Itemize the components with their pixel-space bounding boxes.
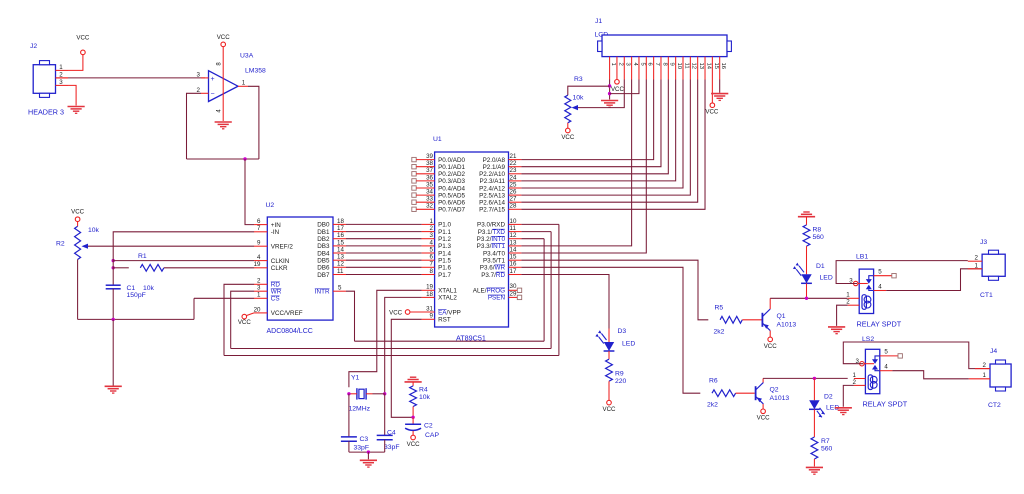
R2 bottom wire: [77, 260, 79, 320]
svg-text:4: 4: [257, 254, 261, 261]
U2 pin 12 DB6: [317, 261, 346, 272]
svg-text:25: 25: [510, 181, 517, 188]
U1 pin 28 P2.7/A15: [479, 203, 521, 214]
svg-text:5: 5: [878, 269, 882, 276]
svg-text:+IN: +IN: [271, 222, 281, 229]
svg-text:DB4: DB4: [317, 250, 330, 257]
wire J1.9 to P2.2: [521, 80, 668, 174]
svg-text:R4: R4: [419, 387, 428, 394]
svg-text:VCC: VCC: [611, 86, 625, 93]
svg-text:33pF: 33pF: [354, 445, 370, 452]
label LS2: [862, 336, 874, 343]
svg-text:33: 33: [426, 196, 433, 203]
svg-text:U1: U1: [433, 136, 442, 143]
svg-text:24: 24: [510, 174, 517, 181]
connector J1 LCD body: [598, 35, 732, 57]
relay LB1 pin 1: [846, 292, 859, 299]
J1 pin 2 stub: [617, 57, 623, 80]
U2 pin 20 VCC/VREF: [254, 306, 303, 317]
wire D2 to R7: [813, 409, 815, 437]
svg-text:VCC: VCC: [238, 319, 252, 326]
relay LS2 pin 3 circle: [860, 362, 864, 366]
potentiometer R3: [565, 95, 571, 123]
svg-text:C2: C2: [424, 423, 433, 430]
junction ground rail: [112, 318, 115, 321]
label D2 LED: [826, 405, 839, 412]
J1 pin 14 stub: [705, 57, 711, 80]
svg-text:13: 13: [337, 254, 344, 261]
U2 pin 14 DB4: [317, 246, 346, 257]
wire Q2 collector: [762, 378, 764, 382]
svg-text:17: 17: [337, 225, 344, 232]
svg-text:INTR: INTR: [315, 289, 330, 296]
svg-text:7: 7: [654, 63, 660, 66]
wire ground column: [112, 319, 114, 385]
relay LB1 pin 2: [846, 299, 859, 306]
J1 pin 7 stub: [654, 57, 660, 80]
junction crystal right: [373, 392, 387, 395]
wire Q1 node to relay: [770, 297, 847, 299]
svg-text:2: 2: [846, 299, 850, 306]
wire J1.13 to P2.6: [521, 80, 697, 203]
junction R4 C2 RST: [411, 416, 414, 419]
wire J2.2 to op-amp +: [56, 77, 206, 79]
label R3 10k: [573, 95, 585, 102]
svg-text:P0.7/AD7: P0.7/AD7: [438, 207, 465, 214]
U2 pin 1 CS: [254, 292, 280, 303]
label R2: [56, 241, 65, 248]
transistor Q1: [762, 309, 770, 331]
svg-text:13: 13: [698, 63, 704, 70]
wire DB2 to P1.2: [346, 238, 422, 240]
ground at J1 pin16: [711, 94, 728, 101]
wire J1.1 to ground: [609, 80, 611, 100]
wire C4 bottom: [384, 440, 386, 452]
label C1: [127, 285, 155, 292]
label C3 33pF: [354, 445, 370, 452]
svg-text:EA/VPP: EA/VPP: [438, 309, 461, 316]
svg-text:16: 16: [720, 63, 726, 70]
U1 pin 26 P2.5/A13: [479, 189, 521, 200]
U1 pin 11 P3.1: [478, 225, 522, 236]
U1 pin 13 P3.3: [477, 239, 522, 250]
svg-text:ADC0804/LCC: ADC0804/LCC: [267, 328, 313, 335]
svg-text:8: 8: [430, 268, 434, 275]
U1 pin 22 P2.1/A9: [483, 160, 522, 171]
J2 pin 3 stub: [56, 79, 69, 86]
svg-text:5: 5: [338, 285, 342, 292]
svg-text:560: 560: [813, 234, 825, 241]
wire R4 bottom: [412, 407, 414, 418]
U2 pin 5 INTR: [315, 285, 346, 296]
label 12MHz: [349, 406, 371, 413]
svg-text:13: 13: [510, 239, 517, 246]
svg-text:VCC: VCC: [764, 343, 778, 350]
power VCC at J1 pin15: [705, 103, 719, 116]
U2 pin 18 DB0: [317, 218, 346, 229]
relay LS2 pin 3 label: [855, 358, 859, 365]
svg-text:9: 9: [669, 63, 675, 66]
U1 pin 3 P1.2: [422, 232, 452, 243]
R3 wiper: [572, 105, 579, 110]
wire D1 to node: [806, 283, 808, 298]
svg-text:R2: R2: [56, 241, 65, 248]
ground at U3A: [215, 122, 232, 129]
power VCC below R3: [561, 128, 575, 141]
U1 pin 10 P3.0: [477, 218, 521, 229]
svg-text:D1: D1: [816, 263, 825, 270]
svg-text:35: 35: [426, 181, 433, 188]
svg-text:4: 4: [878, 283, 882, 290]
ground at J1 pin1: [601, 101, 618, 108]
U1 pin 21 P2.0/A8: [483, 153, 522, 164]
svg-text:P1.5: P1.5: [438, 258, 451, 265]
wire R8 to D1: [806, 246, 808, 274]
svg-text:VREF/2: VREF/2: [271, 244, 294, 251]
junction R1 left: [112, 266, 115, 269]
junction J1.1 R3: [608, 84, 611, 87]
J1 pin 1 stub: [610, 57, 616, 80]
svg-text:2: 2: [617, 63, 623, 66]
wire R2 wiper to U2 VREF/2: [88, 245, 254, 247]
wire -IN: [113, 232, 254, 261]
label U2: [266, 202, 275, 209]
svg-text:9: 9: [430, 313, 434, 320]
svg-text:5: 5: [884, 349, 888, 356]
power VCC below Q2: [757, 409, 771, 422]
J2 pin 1 stub: [56, 64, 69, 71]
wire D2 top lead: [813, 378, 815, 400]
capacitor C3: [341, 437, 357, 441]
svg-text:LB1: LB1: [856, 254, 868, 261]
svg-text:P2.3/A11: P2.3/A11: [480, 178, 506, 185]
label D1: [816, 263, 825, 270]
svg-text:33pF: 33pF: [384, 444, 400, 451]
power VCC at EA: [389, 309, 410, 316]
svg-text:10k: 10k: [88, 227, 100, 234]
label Q1 A1013: [777, 322, 797, 329]
svg-text:26: 26: [510, 189, 517, 196]
U2 pin 19 CLKR: [254, 261, 288, 272]
U1 pin 7 P1.6: [422, 261, 452, 272]
wire INT0 up: [521, 239, 544, 342]
ground above R8: [798, 212, 815, 217]
svg-text:4: 4: [430, 239, 434, 246]
svg-text:2k2: 2k2: [707, 402, 718, 409]
wire INTR to INT0 rail: [346, 291, 355, 341]
svg-text:1: 1: [59, 64, 63, 71]
svg-text:9: 9: [257, 240, 261, 247]
svg-text:18: 18: [426, 291, 433, 298]
wire J1.11 to P2.4: [521, 80, 683, 189]
svg-text:3: 3: [197, 72, 201, 79]
label Q2 A1013: [770, 395, 790, 402]
svg-text:27: 27: [510, 196, 517, 203]
ground at J2: [68, 107, 85, 114]
label R9: [615, 371, 624, 378]
label R1: [138, 253, 147, 260]
svg-text:17: 17: [510, 268, 517, 275]
label J2: [30, 43, 37, 50]
wire Q2 node to relay: [763, 377, 848, 379]
svg-text:WR: WR: [271, 289, 282, 296]
wire RD rail: [224, 355, 559, 357]
svg-text:XTAL2: XTAL2: [438, 295, 457, 302]
U1 pin 24 P2.3/A11: [480, 174, 522, 185]
wire J1.8 to P2.1: [521, 80, 661, 167]
relay LB1 switch: [856, 276, 874, 291]
wire R4 top: [412, 382, 414, 386]
svg-text:RELAY SPDT: RELAY SPDT: [857, 320, 902, 329]
wire caps to ground: [367, 452, 369, 459]
U1 pin 8 P1.7: [422, 268, 452, 279]
svg-text:220: 220: [615, 378, 627, 385]
wire RXD up: [521, 224, 559, 355]
resistor R7: [811, 437, 818, 459]
resistor R9: [606, 359, 613, 381]
label C2: [424, 423, 433, 430]
svg-text:CT2: CT2: [988, 402, 1001, 409]
label C1 150pF: [127, 292, 146, 299]
wire J1.7 to P2.0: [521, 80, 653, 160]
label C4: [387, 429, 396, 436]
label R7: [821, 438, 830, 445]
wire J1.5 to ground join: [610, 80, 639, 94]
wire C1 to ground rail: [112, 289, 114, 320]
label D3: [618, 328, 627, 335]
relay LB1 body: [859, 269, 873, 313]
LED D1: [793, 263, 812, 284]
wire C3 bottom: [348, 441, 350, 452]
svg-text:10k: 10k: [143, 285, 155, 292]
svg-text:CLKR: CLKR: [271, 265, 288, 272]
svg-text:31: 31: [426, 305, 433, 312]
J1 pin 9 stub: [668, 57, 674, 80]
svg-text:P3.4/T0: P3.4/T0: [483, 250, 506, 257]
svg-text:P1.0: P1.0: [438, 222, 451, 229]
svg-text:Y1: Y1: [351, 375, 360, 382]
wire C2 to VCC: [412, 431, 414, 435]
svg-text:1: 1: [983, 372, 987, 379]
relay LB1 pin 3 circle: [854, 281, 858, 285]
wire P3.5 to R5: [521, 260, 708, 320]
wire RST: [391, 319, 421, 417]
svg-text:15: 15: [337, 239, 344, 246]
power VCC at R2: [71, 209, 85, 222]
svg-text:11: 11: [683, 63, 689, 69]
svg-text:DB0: DB0: [317, 222, 330, 229]
label C4 33pF: [384, 444, 400, 451]
svg-text:HEADER 3: HEADER 3: [28, 108, 64, 117]
U1 pin 19 XTAL1: [422, 284, 458, 295]
U1 pin 18 XTAL2: [422, 291, 458, 302]
wire D3 top lead: [608, 329, 610, 343]
U1 pin 30 ALE/PROG: [473, 283, 522, 295]
junction D2 node: [813, 377, 816, 380]
U3A pin 2 stub: [197, 87, 209, 94]
label RELAY SPDT 2: [863, 400, 908, 409]
wire J2.1 to VCC: [68, 55, 83, 71]
wire R1 right lead: [164, 267, 254, 269]
LED D3: [595, 330, 614, 351]
R2 top wire: [77, 222, 79, 227]
svg-text:P2.5/A13: P2.5/A13: [479, 192, 505, 199]
svg-text:A1013: A1013: [777, 322, 797, 329]
U1 pin 23 P2.2/A10: [479, 167, 521, 178]
svg-text:7: 7: [257, 225, 261, 232]
relay LS2 body: [865, 349, 879, 393]
U2 pin 9 VREF/2: [254, 240, 293, 251]
svg-text:P3.5/T1: P3.5/T1: [483, 258, 506, 265]
R3 bottom lead: [567, 123, 569, 128]
svg-text:16: 16: [337, 232, 344, 239]
IC U2 ADC0804 body: [267, 217, 333, 320]
wire J1.3 to R3 wiper: [578, 80, 624, 108]
svg-text:1: 1: [975, 262, 979, 269]
wire DB3 to P1.3: [346, 245, 422, 247]
wire TXD up: [521, 232, 551, 349]
U1 pin 33 P0.6/AD6: [412, 196, 466, 207]
svg-text:P2.6/A14: P2.6/A14: [479, 200, 505, 207]
svg-text:P2.0/A8: P2.0/A8: [483, 157, 506, 164]
svg-text:−: −: [210, 91, 214, 98]
op-amp U3A: [209, 71, 239, 102]
svg-text:19: 19: [254, 261, 261, 268]
svg-text:23: 23: [510, 167, 517, 174]
ground at caps: [360, 460, 377, 467]
wire DB4 to P1.4: [346, 252, 422, 254]
wire XTAL2: [385, 297, 422, 393]
svg-text:P0.3/AD3: P0.3/AD3: [438, 178, 465, 185]
svg-text:PSEN: PSEN: [488, 295, 506, 302]
U1 pin 31 EA/VPP: [410, 305, 461, 316]
U1 pin 32 P0.7/AD7: [412, 203, 466, 214]
svg-text:29: 29: [510, 290, 517, 297]
wire LB1.4 to J3.1: [886, 269, 982, 291]
svg-text:1: 1: [430, 218, 434, 225]
svg-text:15: 15: [713, 63, 719, 70]
wire DB1 to P1.1: [346, 231, 422, 233]
svg-text:18: 18: [337, 218, 344, 225]
svg-text:P0.4/AD4: P0.4/AD4: [438, 185, 465, 192]
label U1: [433, 136, 442, 143]
label C3: [360, 436, 369, 443]
capacitor C1: [106, 285, 121, 289]
label R2 10k: [88, 227, 100, 234]
power VCC below R9: [603, 400, 617, 413]
wire Q1 collector: [769, 298, 771, 309]
label R9 220: [615, 378, 627, 385]
junction crystal left: [347, 392, 350, 395]
wire LS2.2 to ground: [843, 385, 854, 406]
label R8: [813, 227, 822, 234]
svg-text:P2.2/A10: P2.2/A10: [479, 171, 505, 178]
svg-text:-IN: -IN: [271, 229, 280, 236]
junction J1.1 pin5: [608, 92, 611, 95]
svg-text:P2.1/A9: P2.1/A9: [483, 164, 506, 171]
label R4: [419, 387, 428, 394]
resistor R8: [803, 225, 810, 246]
wire DB5 to P1.5: [346, 259, 422, 261]
svg-text:19: 19: [426, 284, 433, 291]
svg-text:P1.4: P1.4: [438, 250, 451, 257]
svg-text:J3: J3: [980, 239, 987, 246]
U1 pin 9 RST: [422, 313, 451, 324]
wire INT0 rail: [355, 340, 545, 342]
svg-text:DB5: DB5: [317, 258, 330, 265]
ground at R7: [806, 467, 823, 474]
wire WR down: [231, 291, 254, 348]
svg-text:14: 14: [510, 246, 517, 253]
label CT1: [980, 292, 993, 299]
wire R5 to Q1 base: [742, 319, 761, 321]
svg-text:P3.3/INT1: P3.3/INT1: [477, 243, 506, 250]
svg-text:P1.2: P1.2: [438, 236, 451, 243]
label LB1: [856, 254, 868, 261]
svg-text:14: 14: [705, 63, 711, 70]
J1 pin 5 stub: [639, 57, 645, 80]
svg-text:VCC: VCC: [76, 34, 90, 41]
svg-text:3: 3: [59, 79, 63, 86]
svg-text:U2: U2: [266, 202, 275, 209]
junction C1 column top: [112, 259, 115, 262]
wire feedback left to pin2: [187, 93, 202, 159]
wire J1.10 to P2.3: [521, 80, 675, 181]
svg-text:1: 1: [610, 63, 616, 66]
label R5: [715, 305, 724, 312]
label R7 560: [821, 446, 833, 453]
svg-text:C1: C1: [127, 285, 136, 292]
U1 pin 4 P1.3: [422, 239, 452, 250]
wire crystal right to C4: [384, 394, 386, 436]
svg-text:U3A: U3A: [240, 53, 254, 60]
svg-text:10: 10: [676, 63, 682, 70]
capacitor C4: [377, 435, 393, 439]
svg-text:VCC: VCC: [705, 109, 719, 116]
svg-text:R6: R6: [709, 378, 718, 385]
svg-text:R3: R3: [574, 76, 583, 83]
label LCD: [595, 32, 609, 39]
connector J2: [33, 61, 55, 98]
U2 pin 15 DB3: [317, 239, 346, 250]
U1 pin 38 P0.1/AD1: [412, 160, 466, 171]
wire J2.3 to ground: [68, 85, 76, 105]
J1 pin 11 stub: [683, 57, 689, 80]
svg-text:+: +: [210, 76, 214, 83]
U1 pin 27 P2.6/A14: [479, 196, 521, 207]
svg-text:10k: 10k: [573, 95, 585, 102]
wire crystal left to C3: [348, 394, 350, 437]
power VCC at U3A: [217, 34, 231, 47]
J1 pin 8 stub: [661, 57, 667, 80]
svg-text:J4: J4: [990, 348, 997, 355]
svg-text:2: 2: [430, 225, 434, 232]
J1 pin 16 stub: [720, 57, 726, 80]
svg-text:P1.7: P1.7: [438, 272, 451, 279]
svg-text:VCC: VCC: [217, 34, 231, 41]
IC U1 AT89C51 body: [435, 152, 509, 327]
U2 pin 11 DB7: [317, 268, 346, 279]
wire Q2 emitter to VCC: [762, 404, 764, 409]
wire WR rail: [231, 348, 551, 350]
svg-text:12: 12: [510, 232, 517, 239]
wire LS2.4 to J4.1: [892, 371, 968, 379]
svg-text:P3.2/INT0: P3.2/INT0: [477, 236, 506, 243]
power VCC below C2: [407, 435, 421, 448]
label Q2: [770, 387, 779, 394]
svg-text:P2.4/A12: P2.4/A12: [479, 185, 505, 192]
ground at LB1: [828, 327, 845, 334]
